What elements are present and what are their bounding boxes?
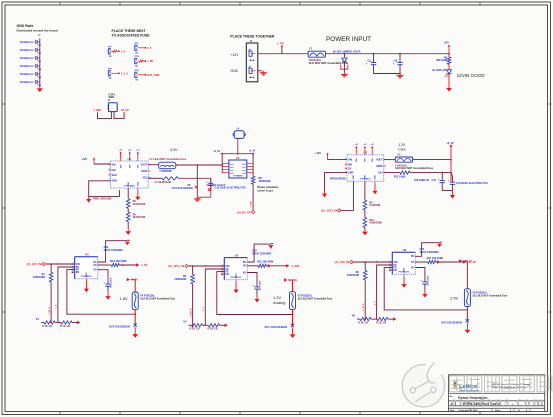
wire pin3 route to fuse 1_8V — [67, 270, 135, 315]
power flags above U1 — [119, 149, 139, 159]
tvs diode D1 — [341, 54, 348, 73]
label A_R3_UP — [237, 210, 255, 214]
ground arrow below fuse 2_5V — [465, 323, 471, 334]
connector J1 — [246, 41, 257, 82]
svg-text:F1: F1 — [309, 47, 313, 51]
svg-text:elecfans.com: elecfans.com — [451, 394, 545, 409]
svg-text:C10 10UF ELECTROLYTIC: C10 10UF ELECTROLYTIC — [215, 187, 246, 190]
svg-text:R 1K 1%: R 1K 1% — [376, 322, 387, 325]
resistor sense 1_8V — [98, 260, 127, 267]
svg-text:GND: GND — [138, 181, 140, 186]
ground arrow of LED — [446, 87, 452, 92]
svg-text:0.1UF CERAMIC: 0.1UF CERAMIC — [104, 249, 123, 252]
svg-text:Date:: Date: — [450, 409, 455, 412]
wire GND pin to ground — [258, 70, 263, 72]
svg-text:1.2V: 1.2V — [398, 143, 406, 147]
capacitor C2 — [393, 54, 403, 74]
test point TP10 (1_8D) — [134, 56, 153, 68]
test point TP2 — [20, 48, 42, 55]
svg-text:Distributed around the board: Distributed around the board — [17, 28, 58, 32]
wire C1 C2 ground bus — [374, 73, 401, 75]
label 1_2RD — [93, 109, 101, 112]
capacitor C12 — [448, 173, 488, 191]
wire module left drop — [222, 154, 229, 173]
wire sense to flag 1_2VA — [266, 264, 286, 267]
svg-text:TP11: TP11 — [134, 70, 140, 72]
test point TP11 (HOT_GND) — [134, 70, 159, 82]
svg-text:4.99KOHM: 4.99KOHM — [369, 222, 382, 225]
svg-text:GND: GND — [375, 175, 377, 180]
title block No row — [450, 396, 454, 398]
svg-text:R 1K 1%: R 1K 1% — [190, 328, 201, 331]
watermark logo circle — [402, 360, 447, 407]
svg-text:PG: PG — [93, 261, 97, 264]
resistor R5 — [126, 188, 145, 208]
ground arrow of U3 pin — [372, 183, 377, 194]
svg-text:R 1K 1%: R 1K 1% — [358, 322, 369, 325]
svg-text:1: 1 — [109, 168, 110, 170]
svg-text:GND: GND — [348, 171, 354, 174]
regulator U5 — [221, 253, 249, 281]
svg-text:U3: U3 — [364, 151, 368, 155]
fuse F4 — [132, 292, 138, 310]
title block date row — [450, 409, 528, 412]
resistor sense 2_5V — [415, 257, 442, 264]
svg-text:R 1K 1%: R 1K 1% — [42, 325, 53, 328]
svg-text:EN: EN — [225, 273, 229, 276]
svg-text:+12: +12 — [363, 144, 366, 146]
net flag +2_5V — [463, 260, 476, 264]
svg-text:OUT-3V3 DESIGN: OUT-3V3 DESIGN — [172, 187, 193, 190]
regulator U1 — [108, 157, 150, 190]
svg-text:GND: GND — [404, 268, 406, 273]
label fuse value 1_8V — [140, 295, 175, 301]
svg-text:VIN: VIN — [129, 164, 131, 168]
resistor R10 — [363, 210, 382, 227]
svg-text:VIN: VIN — [348, 158, 352, 161]
svg-text:A 3R 1: A 3R 1 — [108, 94, 116, 97]
svg-text:ADJ: ADJ — [142, 176, 147, 179]
svg-text:SLO BLO NOT Assembled Fuse: SLO BLO NOT Assembled Fuse — [140, 298, 175, 301]
svg-text:INH: INH — [112, 169, 116, 172]
title Power Generation — [458, 396, 487, 400]
ground of C1 C2 — [397, 74, 404, 78]
wire U1 ground loop — [89, 181, 120, 197]
svg-text:1_2RD: 1_2RD — [93, 109, 101, 112]
svg-text:GND: GND — [365, 175, 367, 180]
svg-text:U5: U5 — [235, 253, 239, 257]
net flag above fuse 2_5V — [459, 259, 472, 289]
svg-text:TestPoint: TestPoint — [20, 64, 33, 68]
svg-text:100KOHM: 100KOHM — [347, 274, 359, 277]
svg-text:+12: +12 — [128, 149, 131, 151]
ground arrow of U6 — [401, 276, 406, 288]
svg-text:(A)_12V_IN: (A)_12V_IN — [335, 260, 350, 264]
label (A)_12V1_IN — [168, 264, 188, 268]
svg-text:+12: +12 — [119, 149, 122, 151]
power flag +12V over LED — [444, 43, 451, 54]
svg-text:SLO BLO NOT Assembled Fuse: SLO BLO NOT Assembled Fuse — [298, 297, 333, 300]
test point TP5 — [20, 72, 42, 79]
svg-text:OPEN DRAIN: OPEN DRAIN — [330, 177, 346, 180]
regulator U3 — [345, 151, 386, 184]
svg-text:U4: U4 — [85, 253, 89, 257]
arrow top loop 2_5V — [437, 242, 442, 247]
wire pin3 route to fuse 1_2VA — [217, 272, 293, 315]
svg-text:C18 10UF: C18 10UF — [427, 275, 429, 286]
svg-text:C16 10UF: C16 10UF — [259, 280, 261, 291]
wire bead to module rail — [237, 139, 239, 154]
svg-text:2_5: 2_5 — [147, 47, 152, 50]
ground arrow of U4 — [84, 281, 89, 293]
power flag +12V into U3 — [315, 152, 347, 160]
svg-text:+12: +12 — [371, 144, 374, 146]
resistor R4 680ohm — [436, 54, 451, 65]
svg-text:SENS: SENS — [376, 165, 383, 168]
svg-text:R 1K 1%: R 1K 1% — [60, 325, 71, 328]
power flag +12V into U1 — [81, 158, 110, 165]
svg-text:C14 10UF: C14 10UF — [109, 277, 112, 288]
svg-text:GND: GND — [86, 272, 88, 277]
label fuse value 2_5V — [473, 291, 508, 297]
svg-text:1: 1 — [223, 273, 224, 275]
svg-text:1_8: 1_8 — [121, 50, 126, 53]
svg-text:0.1UF CERAMIC: 0.1UF CERAMIC — [252, 253, 271, 256]
test point TP6 — [20, 80, 42, 87]
svg-text:PG: PG — [411, 255, 415, 258]
label bypass cap 1_8V — [104, 246, 123, 252]
regulator U4 — [72, 253, 100, 281]
test point TP9 (2_5) — [134, 43, 152, 55]
capacitor C8 labels — [172, 184, 198, 190]
test point TP8 (1_2_A) — [108, 68, 128, 80]
label 1.2V|Analog — [273, 295, 285, 305]
svg-text:VIN: VIN — [112, 163, 116, 166]
svg-text:VIN: VIN — [138, 164, 140, 168]
svg-text:1: 1 — [73, 262, 74, 264]
svg-text:TP10: TP10 — [134, 56, 140, 58]
svg-text:R11 0.000: R11 0.000 — [394, 175, 406, 178]
label fuse F2 value — [395, 164, 433, 170]
regulator U6 — [389, 248, 417, 276]
svg-text:2: 2 — [510, 410, 511, 412]
svg-text:SEN: SEN — [112, 174, 117, 177]
svg-text:2.5V: 2.5V — [450, 295, 459, 300]
svg-text:VOUT: VOUT — [376, 158, 383, 161]
svg-text:1: 1 — [391, 260, 392, 262]
ground arrow below fuse 1_8V — [132, 327, 138, 338]
power flags above U3 — [355, 144, 374, 153]
label 2.5V — [450, 295, 459, 300]
net label +1_2V — [249, 151, 256, 153]
svg-text:GND: GND — [112, 180, 118, 183]
ground arrow of Cout 1_2VA — [254, 295, 259, 303]
net label OUT 1_2VA — [265, 326, 288, 329]
svg-text:OUT-2V5 DESIGN: OUT-2V5 DESIGN — [441, 321, 462, 324]
svg-text:EN: EN — [393, 269, 397, 272]
svg-text:(A)_R3_UP: (A)_R3_UP — [237, 210, 251, 214]
svg-text:1_R3U: 1_R3U — [251, 200, 253, 207]
label +12V — [231, 53, 240, 57]
svg-text:28.0KOHM: 28.0KOHM — [133, 203, 146, 206]
ground bars at connector — [260, 71, 267, 75]
wire fuse output 1_8V — [134, 310, 136, 327]
svg-text:+12: +12 — [355, 144, 358, 146]
wire fuse F1 to +12V rail — [326, 53, 450, 55]
resistor R9 — [363, 181, 380, 210]
svg-text:0.22OHM: 0.22OHM — [369, 204, 380, 207]
label 1.2V Core — [398, 143, 406, 152]
title block address — [492, 383, 531, 389]
svg-text:VO: VO — [243, 265, 247, 268]
note PLACE THESE NEXT TO ASSOCIATED FUSE — [112, 29, 151, 37]
no-connect mark 1_8V — [134, 324, 137, 327]
svg-text:TestPoint: TestPoint — [20, 56, 33, 60]
wire +12V rail to fuse — [258, 53, 308, 55]
resistor RUN divider 1_8V — [33, 264, 53, 282]
svg-text:3.3V: 3.3V — [170, 148, 178, 152]
watermark elecfans text — [451, 394, 545, 409]
gnd pads bus wire — [38, 35, 41, 86]
fuse F1 — [308, 47, 325, 58]
svg-text:GND: GND — [353, 175, 355, 180]
svg-text:Friday April 18, 2008: Friday April 18, 2008 — [459, 409, 479, 412]
svg-text:C11: C11 — [432, 179, 437, 182]
svg-text:1_8D: 1_8D — [147, 60, 153, 63]
title POWER INPUT — [326, 36, 371, 43]
svg-text:A3_UP: A3_UP — [121, 109, 129, 112]
svg-text:1: 1 — [391, 269, 392, 271]
wire module top rail — [221, 153, 254, 155]
svg-text:100KOHM: 100KOHM — [33, 276, 45, 279]
svg-text:(A)_12V1_IN: (A)_12V1_IN — [321, 208, 337, 212]
wire pin2 drop 1_8V — [55, 267, 75, 323]
svg-text:B+12V_UNREG_FILT4: B+12V_UNREG_FILT4 — [333, 50, 361, 54]
net flag above fuse 1_8V — [127, 278, 138, 292]
ground arrow of R10 — [362, 228, 368, 236]
svg-text:100 OHM 1%: 100 OHM 1% — [414, 179, 430, 182]
svg-text:GND: GND — [236, 273, 238, 278]
label GND — [231, 69, 239, 73]
svg-text:R 1K 1%: R 1K 1% — [208, 328, 219, 331]
wire 3V3 rail — [176, 164, 223, 166]
svg-text:1_2VA: 1_2VA — [291, 264, 299, 268]
resistor RUN divider 1_2VA — [174, 266, 194, 284]
capacitor C1 — [366, 54, 376, 74]
logo Lattice — [454, 381, 481, 392]
test point TP1 — [20, 40, 42, 47]
ground arrow of R6 — [125, 222, 131, 235]
wire input rail 2_5V — [353, 261, 392, 263]
ground arrow of U3 loop — [322, 191, 327, 197]
test point tap 1_TP1 — [277, 44, 284, 54]
svg-text:1_8V: 1_8V — [141, 263, 148, 267]
test point TP4 — [20, 64, 42, 71]
svg-text:VOUT: VOUT — [141, 164, 148, 167]
feedback divider row 1_2VA — [183, 321, 228, 331]
wire fuse output 2_5V — [467, 307, 469, 322]
ground arrow of gnd pad bus — [37, 87, 43, 93]
svg-text:1: 1 — [223, 264, 224, 266]
net flag 1_2VA — [286, 264, 299, 268]
wire top loop 2_5V — [415, 243, 439, 257]
svg-text:TestPoint: TestPoint — [20, 80, 33, 84]
svg-text:LR_RGR_GN: LR_RGR_GN — [432, 70, 447, 72]
label 12VIN GOOD — [457, 73, 486, 78]
svg-text:TestPoint: TestPoint — [20, 72, 33, 76]
svg-text:VTT08060: VTT08060 — [233, 175, 243, 177]
svg-text:1_2VA_R: 1_2VA_R — [189, 308, 192, 317]
label (A)_12V_IN — [335, 260, 354, 264]
net label OUT 1_8V — [109, 326, 130, 329]
svg-text:+3_3V: +3_3V — [446, 142, 454, 145]
capacitor Cout 1_2VA — [247, 273, 261, 295]
net label +3_3V — [213, 151, 220, 153]
wire module right drop — [247, 154, 253, 173]
label 3.3V — [170, 148, 178, 152]
svg-text:OUT-1V8 DESIGN: OUT-1V8 DESIGN — [109, 326, 130, 329]
svg-text:+12: +12 — [136, 149, 139, 151]
watermark cjk text — [450, 376, 552, 392]
label A_12V1_IN core — [321, 208, 341, 212]
ground of D1 — [341, 73, 348, 77]
svg-text:R15 100 OHM: R15 100 OHM — [257, 261, 273, 264]
svg-text:+12V: +12V — [315, 152, 321, 155]
svg-text:1: 1 — [73, 271, 74, 273]
wire U3 ground loop — [325, 173, 348, 192]
label (A)_12V_IN — [27, 262, 46, 266]
capacitor C11 — [432, 173, 445, 191]
wire input rail 1_2VA — [188, 265, 224, 267]
wire top loop 1_2VA — [247, 244, 271, 262]
svg-text:(A)_12V_IN: (A)_12V_IN — [27, 262, 42, 266]
svg-text:4.7 99.9KOHM: 4.7 99.9KOHM — [154, 181, 171, 184]
svg-text:+12V: +12V — [81, 158, 87, 161]
svg-text:U6: U6 — [403, 248, 407, 252]
svg-text:VO: VO — [243, 271, 247, 274]
ground arrow below fuse 1_2VA — [290, 328, 296, 339]
svg-text:VIN: VIN — [120, 164, 122, 168]
svg-text:VO: VO — [93, 264, 97, 267]
capacitor C10 — [206, 178, 246, 190]
resistor sense 1_2VA — [247, 261, 273, 268]
ground arrow of U1 loop — [86, 196, 112, 202]
wire R8 to R3_UP label — [251, 184, 254, 210]
wire pin2 drop 1_2VA — [203, 269, 224, 325]
ground of 3V3 cap — [194, 197, 201, 201]
svg-text:R17 100 OHM: R17 100 OHM — [427, 257, 443, 260]
svg-text:POWER INPUT: POWER INPUT — [326, 36, 371, 43]
svg-text:VADJ: VADJ — [141, 170, 148, 173]
svg-text:+1_2V: +1_2V — [249, 151, 256, 153]
svg-text:1_TP1: 1_TP1 — [277, 44, 284, 46]
no-connect mark 2_5V — [466, 319, 469, 322]
ground arrow of Cout 1_8V — [105, 292, 110, 300]
svg-text:TO ASSOCIATED FUSE: TO ASSOCIATED FUSE — [112, 33, 151, 37]
svg-text:100KOHM: 100KOHM — [174, 278, 186, 281]
capacitor C9 labels — [207, 184, 226, 191]
svg-text:PLACE THESE TOGETHER: PLACE THESE TOGETHER — [230, 35, 275, 39]
wire U3 feedback — [384, 171, 452, 174]
wire feedback loop 3V3 — [178, 178, 211, 197]
wire 12V1 in to U3 — [341, 181, 353, 210]
note GND Pads — [17, 24, 58, 32]
ground arrow of C12 — [450, 191, 455, 199]
svg-text:L1 3.3uH NOT Assembled Fuse: L1 3.3uH NOT Assembled Fuse — [149, 158, 187, 161]
svg-text:F4 FUSE(3A): F4 FUSE(3A) — [140, 295, 154, 298]
svg-text:(A)_12V1_IN: (A)_12V1_IN — [168, 264, 184, 268]
svg-text:VO: VO — [411, 261, 415, 264]
svg-text:INH: INH — [348, 163, 352, 166]
svg-text:VIN: VIN — [372, 158, 374, 162]
svg-text:VIN: VIN — [365, 158, 367, 162]
label feedback resistor — [394, 175, 430, 182]
ferrite bead L2 — [233, 128, 245, 138]
net label 12V_UNREG_FILTERED — [333, 50, 361, 54]
svg-text:PG: PG — [243, 261, 247, 264]
svg-text:R13 100 OHM: R13 100 OHM — [110, 260, 126, 263]
wire divider drop 2_5V — [363, 280, 365, 319]
wire 3V3 to gnd cap — [196, 165, 198, 197]
svg-text:C12 BULK ELECTROLYTIC: C12 BULK ELECTROLYTIC — [456, 182, 488, 185]
svg-text:T 600OHM: T 600OHM — [159, 170, 171, 173]
label 1.8V — [120, 296, 129, 301]
svg-text:F5 FUSE(3A): F5 FUSE(3A) — [298, 294, 312, 297]
test point TP3 — [20, 56, 42, 63]
resistor R7 feedback — [148, 177, 178, 184]
wire F2 to +1_2V rail — [413, 159, 452, 161]
note PLACE THESE TOGETHER — [230, 35, 275, 39]
arrow top loop 1_8V — [125, 240, 130, 245]
net label OUT 2_5V — [441, 321, 462, 324]
svg-text:1: 1 — [345, 167, 346, 169]
svg-text:HOT_GND: HOT_GND — [147, 74, 159, 77]
wire pin3 route to fuse 2_5V — [384, 268, 467, 310]
svg-text:VO: VO — [93, 269, 97, 272]
led DS1 12VIN GOOD — [432, 64, 452, 86]
component Y1 labels — [108, 94, 116, 102]
wire input rail 1_8V — [45, 263, 74, 265]
svg-text:49SD: 49SD — [108, 96, 114, 99]
svg-text:close to g1: close to g1 — [257, 189, 273, 193]
title block frame — [449, 375, 545, 412]
power flag +3_3V core — [446, 142, 454, 181]
wire caps gnd bus 1.2core — [442, 190, 452, 192]
wire divider drop 1_8V — [49, 282, 51, 323]
resistor RUN divider 2_5V — [347, 262, 367, 280]
svg-text:1: 1 — [345, 163, 346, 165]
svg-text:F6 FUSE(3A): F6 FUSE(3A) — [473, 291, 487, 294]
wire top loop 1_8V — [98, 241, 128, 262]
feedback divider row 1_8V — [36, 318, 81, 328]
svg-text:1_8V_R: 1_8V_R — [49, 307, 51, 315]
svg-text:EN: EN — [76, 271, 80, 274]
svg-text:GND: GND — [128, 181, 130, 186]
wire Y1 left loop — [98, 112, 112, 119]
wire sense to flag 1_8V — [119, 264, 136, 266]
svg-text:0.1UF CERAMIC: 0.1UF CERAMIC — [420, 251, 439, 254]
svg-text:VIN: VIN — [356, 158, 358, 162]
net flag above fuse 1_2VA — [284, 278, 297, 292]
svg-text:28.0KOHM: 28.0KOHM — [133, 216, 146, 219]
test point TP7 (1_8) — [108, 46, 126, 58]
svg-text:+12V: +12V — [444, 43, 450, 45]
svg-text:1_2_A: 1_2_A — [121, 72, 129, 75]
svg-text:100KOHM: 100KOHM — [259, 180, 271, 183]
label bypass cap 2_5V — [420, 248, 439, 254]
net flag 1_8V — [136, 263, 148, 267]
svg-text:TestPoint: TestPoint — [20, 48, 33, 52]
